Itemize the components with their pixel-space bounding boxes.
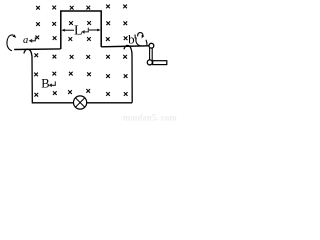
wire: right curved corner and right vertical side	[124, 45, 132, 102]
wire: left horizontal lead to terminal a	[14, 48, 60, 51]
magnetic field region B: x marks row 1	[36, 5, 127, 10]
wire: right horizontal lead to terminal b	[101, 46, 149, 47]
magnetic field region B: x marks row 4	[34, 53, 127, 58]
wire: left curved corner and left vertical side	[24, 49, 33, 103]
svg-text:B: B	[41, 76, 49, 90]
switch: bottom terminal circle	[147, 60, 152, 65]
magnetic field region B: x marks row 6	[34, 89, 127, 97]
lamp (circle with cross)	[74, 96, 87, 109]
svg-text:b: b	[128, 31, 135, 46]
magnetic field region B: x marks row 2	[36, 21, 127, 26]
dimension arrow L: right arrow	[89, 29, 101, 32]
wire: bottom horizontal side	[32, 102, 132, 104]
return mark after a	[30, 37, 36, 42]
svg-text:manfen5. com: manfen5. com	[123, 113, 177, 123]
svg-text:L: L	[74, 24, 83, 39]
switch: top terminal circle	[149, 43, 154, 48]
dimension arrow L: left arrow	[62, 29, 75, 32]
resistor R (plug handle)	[153, 61, 167, 65]
return mark after L	[82, 28, 88, 34]
magnetic field region B: x marks row 3	[35, 36, 127, 41]
switch: blade double line	[150, 48, 153, 60]
crank symbol at terminal b	[135, 33, 147, 46]
crank symbol at terminal a	[7, 35, 16, 51]
wire: top notch rails (rod section of length L)	[61, 11, 101, 49]
svg-text:a: a	[23, 35, 28, 46]
return mark after B	[50, 81, 56, 86]
magnetic field region B: x marks row 5	[34, 72, 127, 78]
